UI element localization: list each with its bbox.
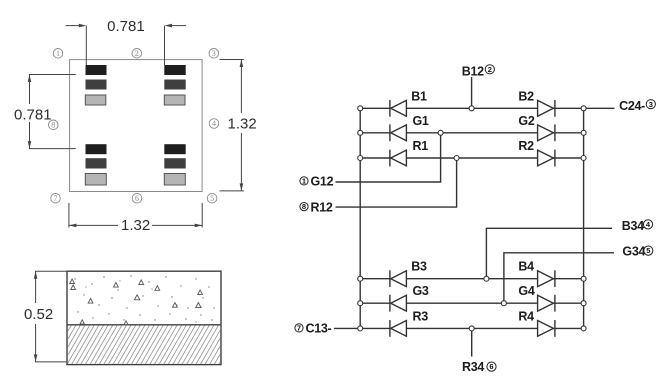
net label G34 pin 5 bbox=[622, 245, 653, 259]
wire row G1-G2 bbox=[360, 132, 583, 134]
pin 2 marker bbox=[132, 49, 142, 59]
svg-text:2: 2 bbox=[135, 49, 139, 58]
net label C24- pin 3 bbox=[619, 99, 655, 113]
pad group top-right bbox=[164, 65, 185, 105]
LED R3 bbox=[390, 320, 407, 337]
svg-text:B1: B1 bbox=[411, 89, 427, 103]
node B12 junction bbox=[469, 106, 474, 111]
svg-text:8: 8 bbox=[51, 121, 55, 130]
node left rail B3 bbox=[358, 276, 363, 281]
wire B34 bbox=[486, 228, 612, 278]
wire B12 drop bbox=[471, 77, 473, 108]
svg-text:1.32: 1.32 bbox=[228, 116, 257, 133]
node left rail R3 bbox=[358, 326, 363, 331]
pin 8 marker bbox=[49, 120, 59, 130]
LED B3 bbox=[390, 270, 407, 287]
node R34 junction bbox=[469, 326, 474, 331]
wire G12 bbox=[336, 133, 441, 182]
node R12 junction bbox=[454, 156, 459, 161]
node right rail B2 bbox=[581, 106, 586, 111]
left bus rail bbox=[359, 108, 361, 328]
node G34 junction bbox=[501, 301, 506, 306]
svg-text:4: 4 bbox=[212, 119, 216, 128]
net label B12 pin 2 bbox=[462, 65, 495, 79]
wire row R1-R2 bbox=[360, 157, 583, 159]
net label R34 pin 6 bbox=[462, 360, 496, 374]
svg-text:8: 8 bbox=[302, 202, 306, 211]
svg-text:1: 1 bbox=[302, 176, 306, 185]
LED R4 bbox=[538, 320, 555, 337]
package outline (top view) bbox=[70, 60, 203, 192]
pad group bottom-right bbox=[164, 144, 185, 185]
node left rail B1 bbox=[358, 106, 363, 111]
svg-text:C13-: C13- bbox=[306, 322, 332, 336]
svg-text:B3: B3 bbox=[411, 260, 427, 274]
svg-text:C24-: C24- bbox=[619, 99, 645, 113]
dimension 1.32 bottom bbox=[69, 203, 202, 228]
wire row G3-G4 bbox=[360, 302, 583, 304]
net label G12 pin 1 bbox=[300, 175, 334, 189]
wire row B3-B4 bbox=[360, 278, 583, 280]
svg-text:0.781: 0.781 bbox=[14, 107, 52, 124]
node left rail R1 bbox=[358, 156, 363, 161]
pin 5 marker bbox=[207, 193, 217, 203]
svg-text:1.32: 1.32 bbox=[121, 217, 150, 234]
svg-text:G2: G2 bbox=[518, 114, 534, 128]
node right rail R2 bbox=[581, 156, 586, 161]
dimension 0.781 left bbox=[28, 75, 76, 149]
net label B34 pin 4 bbox=[622, 219, 653, 233]
pin 7 marker bbox=[51, 193, 61, 203]
wire row B1-B2 bbox=[360, 107, 583, 109]
wire G34 bbox=[504, 253, 614, 303]
svg-text:6: 6 bbox=[489, 362, 493, 371]
node right rail R4 bbox=[581, 326, 586, 331]
wire C13 stub bbox=[334, 327, 360, 329]
svg-text:B12: B12 bbox=[462, 65, 484, 79]
LED G4 bbox=[538, 295, 555, 312]
svg-text:B4: B4 bbox=[518, 260, 534, 274]
encapsulant speckles bbox=[74, 275, 214, 322]
wire R34 drop bbox=[471, 328, 473, 356]
svg-text:R2: R2 bbox=[518, 139, 534, 153]
svg-text:G3: G3 bbox=[413, 284, 429, 298]
node right rail G4 bbox=[581, 301, 586, 306]
svg-text:R3: R3 bbox=[413, 309, 429, 323]
svg-text:1: 1 bbox=[56, 49, 60, 58]
pad group bottom-left bbox=[85, 144, 106, 185]
pin 4 marker bbox=[209, 119, 219, 129]
dimension 1.32 right bbox=[220, 60, 244, 191]
svg-text:R34: R34 bbox=[462, 360, 484, 374]
LED G3 bbox=[390, 295, 407, 312]
svg-text:G12: G12 bbox=[311, 175, 334, 189]
svg-text:R12: R12 bbox=[311, 200, 333, 214]
svg-text:2: 2 bbox=[488, 65, 492, 74]
pin 1 marker bbox=[53, 49, 63, 59]
node right rail G2 bbox=[581, 130, 586, 135]
svg-text:0.781: 0.781 bbox=[107, 18, 145, 35]
LED G1 bbox=[390, 124, 407, 141]
svg-text:G34: G34 bbox=[622, 245, 645, 259]
svg-text:3: 3 bbox=[649, 100, 653, 109]
svg-text:R1: R1 bbox=[413, 139, 429, 153]
dimension 0.781 top bbox=[66, 24, 186, 65]
svg-text:0.52: 0.52 bbox=[24, 306, 53, 323]
LED R1 bbox=[390, 150, 407, 167]
node right rail B4 bbox=[581, 276, 586, 281]
right bus rail bbox=[583, 108, 585, 328]
svg-text:5: 5 bbox=[646, 246, 650, 255]
svg-text:G4: G4 bbox=[518, 284, 534, 298]
LED R2 bbox=[538, 150, 555, 167]
svg-text:R4: R4 bbox=[518, 309, 534, 323]
node B34 junction bbox=[484, 276, 489, 281]
side view body bbox=[67, 271, 221, 364]
pin 6 marker bbox=[132, 193, 142, 203]
wire C24 stub bbox=[584, 107, 615, 109]
net label C13- pin 7 bbox=[295, 322, 332, 336]
svg-text:7: 7 bbox=[54, 194, 58, 203]
LED G2 bbox=[538, 124, 555, 141]
node left rail G1 bbox=[358, 130, 363, 135]
encapsulant/substrate divider bbox=[67, 324, 221, 326]
svg-text:5: 5 bbox=[210, 194, 214, 203]
LED B2 bbox=[538, 100, 555, 117]
pin 3 marker bbox=[209, 49, 219, 59]
svg-text:7: 7 bbox=[297, 323, 301, 332]
wire R12 bbox=[336, 158, 457, 207]
net label R12 pin 8 bbox=[300, 200, 333, 214]
wire row R3-R4 bbox=[360, 327, 583, 329]
encapsulant particles bbox=[70, 279, 203, 325]
node left rail G3 bbox=[358, 301, 363, 306]
dimension 0.52 bbox=[34, 271, 67, 362]
svg-text:B34: B34 bbox=[622, 219, 644, 233]
svg-text:3: 3 bbox=[212, 49, 216, 58]
pad group top-left bbox=[85, 65, 106, 105]
LED B4 bbox=[538, 270, 555, 287]
svg-text:6: 6 bbox=[135, 194, 139, 203]
LED B1 bbox=[390, 100, 407, 117]
svg-text:B2: B2 bbox=[518, 89, 534, 103]
svg-text:G1: G1 bbox=[413, 114, 429, 128]
node G12 junction bbox=[438, 130, 443, 135]
